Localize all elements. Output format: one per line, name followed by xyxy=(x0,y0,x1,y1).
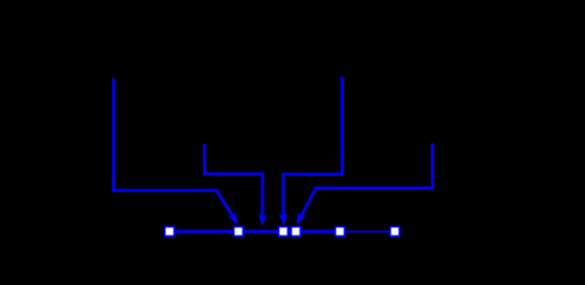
wire: annotation connector C (elbow from upper-right label, vertical arrow to marker P3) xyxy=(283,77,342,217)
wire: annotation connector B (elbow from mid-left label, vertical arrow to line midpoint) xyxy=(205,144,263,217)
wire: thick number line segment P1-P5 xyxy=(170,230,340,233)
arrowhead B xyxy=(258,214,267,227)
wire: annotation connector D (elbow from right label, arrow to marker P4) xyxy=(301,143,433,217)
arrowhead C xyxy=(279,213,288,226)
wire: thin number line segment P5-P6 xyxy=(340,231,395,233)
node P6 (square marker) xyxy=(390,227,399,236)
arrowhead D xyxy=(296,212,306,226)
node P1 (square marker) xyxy=(165,227,174,236)
arrowhead A xyxy=(228,212,239,225)
node P5 (square marker) xyxy=(335,227,344,236)
wire: annotation connector A (elbow from upper-left label, arrow to marker P2) xyxy=(113,78,233,217)
node P4 (square marker) xyxy=(291,227,300,236)
node P3 (square marker) xyxy=(279,227,288,236)
node P2 (square marker) xyxy=(234,227,243,236)
